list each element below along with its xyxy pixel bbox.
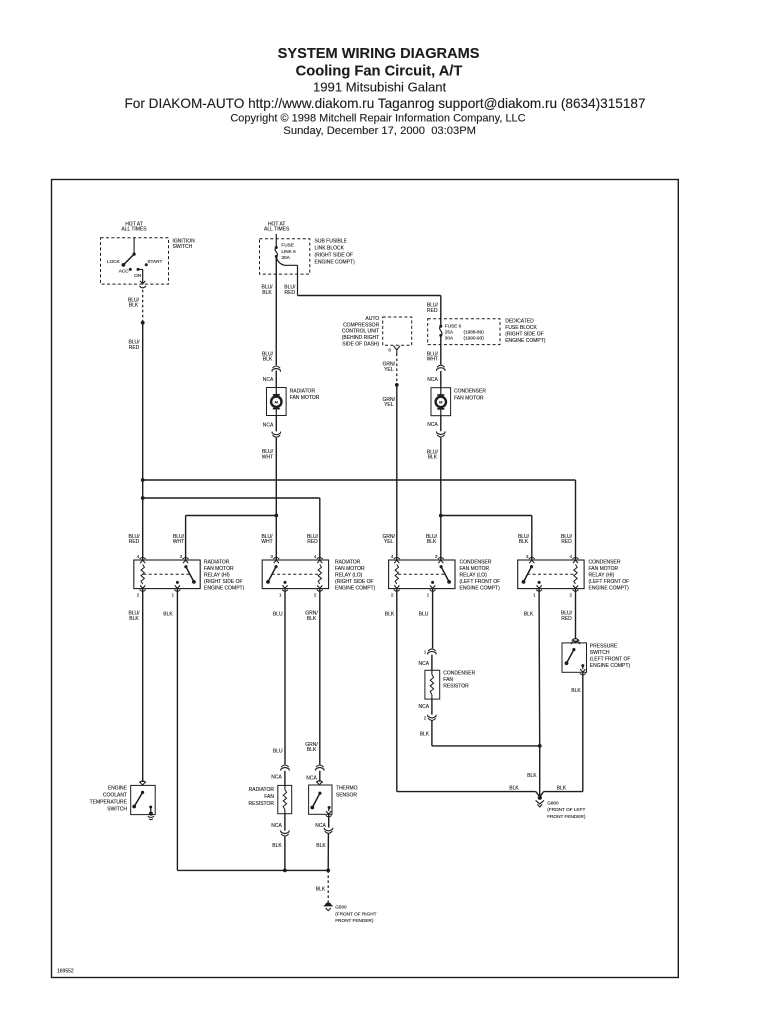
svg-text:RELAY (LO): RELAY (LO) bbox=[335, 573, 363, 579]
svg-text:AUTO: AUTO bbox=[365, 316, 379, 322]
svg-text:ENGINE COMPT): ENGINE COMPT) bbox=[204, 586, 245, 592]
svg-text:1: 1 bbox=[279, 592, 282, 597]
svg-text:FRONT FENDER): FRONT FENDER) bbox=[335, 918, 374, 923]
svg-text:4: 4 bbox=[137, 554, 140, 559]
svg-text:4: 4 bbox=[314, 554, 317, 559]
svg-text:BLK: BLK bbox=[519, 539, 529, 545]
svg-text:(RIGHT SIDE OF: (RIGHT SIDE OF bbox=[335, 579, 374, 585]
svg-text:6: 6 bbox=[388, 348, 391, 353]
svg-text:2: 2 bbox=[570, 592, 573, 597]
svg-text:BLK: BLK bbox=[129, 303, 139, 309]
svg-text:BLU: BLU bbox=[273, 749, 283, 755]
svg-text:BLK: BLK bbox=[420, 731, 430, 737]
svg-text:RELAY (HI): RELAY (HI) bbox=[589, 573, 615, 579]
svg-text:RELAY (HI): RELAY (HI) bbox=[204, 573, 230, 579]
svg-text:COMPRESSOR: COMPRESSOR bbox=[343, 322, 380, 328]
svg-text:WHT: WHT bbox=[262, 454, 273, 460]
svg-text:FUSE: FUSE bbox=[281, 243, 294, 248]
svg-text:1: 1 bbox=[424, 649, 427, 654]
svg-text:RADIATOR: RADIATOR bbox=[249, 787, 275, 793]
svg-text:FAN MOTOR: FAN MOTOR bbox=[460, 566, 490, 572]
svg-text:RADIATOR: RADIATOR bbox=[290, 388, 316, 394]
svg-text:ENGINE COMPT): ENGINE COMPT) bbox=[335, 586, 376, 592]
svg-text:WHT: WHT bbox=[173, 539, 184, 545]
svg-text:1: 1 bbox=[533, 592, 536, 597]
svg-text:3: 3 bbox=[180, 554, 183, 559]
svg-text:NCA: NCA bbox=[427, 377, 438, 383]
svg-text:For DIAKOM-AUTO http://www.dia: For DIAKOM-AUTO http://www.diakom.ru Tag… bbox=[124, 96, 645, 111]
svg-text:RADIATOR: RADIATOR bbox=[335, 560, 361, 566]
svg-text:RED: RED bbox=[285, 290, 296, 296]
svg-text:FUSE BLOCK: FUSE BLOCK bbox=[505, 325, 537, 331]
svg-text:NCA: NCA bbox=[427, 422, 438, 428]
svg-text:FUSE 6: FUSE 6 bbox=[445, 324, 462, 329]
svg-text:BLK: BLK bbox=[524, 612, 534, 618]
svg-text:3: 3 bbox=[435, 554, 438, 559]
svg-text:2: 2 bbox=[314, 592, 317, 597]
svg-text:Cooling Fan Circuit, A/T: Cooling Fan Circuit, A/T bbox=[296, 64, 463, 80]
svg-text:SWITCH: SWITCH bbox=[107, 807, 127, 813]
svg-text:BLK: BLK bbox=[509, 785, 519, 791]
svg-text:RED: RED bbox=[307, 539, 318, 545]
svg-text:THERMO: THERMO bbox=[336, 786, 358, 792]
svg-text:(FRONT OF LEFT: (FRONT OF LEFT bbox=[547, 807, 585, 812]
svg-text:SENSOR: SENSOR bbox=[336, 792, 358, 798]
svg-text:ENGINE COMPT): ENGINE COMPT) bbox=[460, 586, 501, 592]
svg-text:169552: 169552 bbox=[57, 969, 74, 975]
svg-text:LINK BLOCK: LINK BLOCK bbox=[315, 246, 345, 252]
svg-text:YEL: YEL bbox=[384, 367, 394, 373]
svg-text:4: 4 bbox=[570, 554, 573, 559]
svg-text:ENGINE: ENGINE bbox=[108, 786, 128, 792]
svg-text:(1990-93): (1990-93) bbox=[464, 336, 485, 341]
svg-text:SUB FUSIBLE: SUB FUSIBLE bbox=[315, 239, 348, 245]
svg-text:WHT: WHT bbox=[427, 357, 438, 363]
svg-text:3: 3 bbox=[270, 554, 273, 559]
svg-text:M: M bbox=[275, 399, 279, 404]
svg-text:YEL: YEL bbox=[384, 539, 394, 545]
svg-text:ALL TIMES: ALL TIMES bbox=[121, 227, 147, 233]
svg-text:M: M bbox=[439, 400, 443, 405]
svg-text:BLK: BLK bbox=[272, 843, 282, 849]
svg-text:RED: RED bbox=[129, 539, 140, 545]
svg-text:G500: G500 bbox=[335, 905, 347, 910]
svg-text:RED: RED bbox=[427, 308, 438, 314]
svg-text:SWITCH: SWITCH bbox=[590, 650, 610, 656]
svg-text:RED: RED bbox=[129, 345, 140, 351]
svg-text:BLK: BLK bbox=[262, 290, 272, 296]
svg-text:BLK: BLK bbox=[307, 616, 317, 622]
svg-text:BLK: BLK bbox=[263, 357, 273, 363]
svg-text:BLU: BLU bbox=[419, 612, 429, 618]
svg-text:DEDICATED: DEDICATED bbox=[505, 319, 534, 325]
svg-text:ON: ON bbox=[134, 273, 141, 278]
svg-text:ENGINE COMPT): ENGINE COMPT) bbox=[315, 259, 356, 265]
svg-text:BLK: BLK bbox=[571, 688, 581, 694]
svg-text:G800: G800 bbox=[547, 800, 559, 805]
svg-text:TEMPERATURE: TEMPERATURE bbox=[90, 800, 128, 806]
svg-text:BLK: BLK bbox=[316, 843, 326, 849]
svg-text:YEL: YEL bbox=[384, 402, 394, 408]
svg-text:FAN: FAN bbox=[443, 677, 453, 683]
svg-text:ENGINE COMPT): ENGINE COMPT) bbox=[589, 586, 630, 592]
svg-text:BLK: BLK bbox=[385, 612, 395, 618]
svg-text:ENGINE COMPT): ENGINE COMPT) bbox=[590, 663, 631, 669]
svg-text:NCA: NCA bbox=[306, 775, 317, 781]
svg-text:CONDENSER: CONDENSER bbox=[589, 560, 621, 566]
svg-text:BLK: BLK bbox=[163, 612, 173, 618]
svg-text:CONDENSER: CONDENSER bbox=[454, 389, 486, 395]
svg-text:2: 2 bbox=[424, 716, 427, 721]
svg-text:Sunday, December 17, 2000 03:: Sunday, December 17, 2000 03:03PM bbox=[283, 125, 476, 137]
svg-text:RED: RED bbox=[561, 539, 572, 545]
svg-text:CONDENSER: CONDENSER bbox=[443, 671, 475, 677]
svg-text:(RIGHT SIDE OF: (RIGHT SIDE OF bbox=[204, 579, 243, 585]
svg-text:LINK 6: LINK 6 bbox=[281, 249, 296, 254]
svg-text:(LEFT FRONT OF: (LEFT FRONT OF bbox=[590, 656, 631, 662]
svg-text:WHT: WHT bbox=[261, 539, 272, 545]
svg-text:CONDENSER: CONDENSER bbox=[460, 560, 492, 566]
svg-text:BLK: BLK bbox=[527, 773, 537, 779]
svg-text:NCA: NCA bbox=[271, 823, 282, 829]
svg-text:RESISTOR: RESISTOR bbox=[249, 801, 275, 807]
svg-text:FAN MOTOR: FAN MOTOR bbox=[454, 395, 484, 401]
svg-text:PRESSURE: PRESSURE bbox=[590, 643, 618, 649]
svg-text:RED: RED bbox=[561, 616, 572, 622]
svg-text:FAN MOTOR: FAN MOTOR bbox=[204, 566, 234, 572]
svg-text:SIDE OF DASH): SIDE OF DASH) bbox=[342, 341, 379, 347]
svg-text:ALL TIMES: ALL TIMES bbox=[264, 227, 290, 233]
svg-text:FAN MOTOR: FAN MOTOR bbox=[589, 566, 619, 572]
svg-text:COOLANT: COOLANT bbox=[103, 793, 127, 799]
svg-text:NCA: NCA bbox=[271, 774, 282, 780]
svg-text:25A: 25A bbox=[445, 330, 454, 335]
svg-text:FRONT FENDER): FRONT FENDER) bbox=[547, 814, 586, 819]
svg-text:1991 Mitsubishi Galant: 1991 Mitsubishi Galant bbox=[313, 80, 447, 95]
svg-text:(RIGHT SIDE OF: (RIGHT SIDE OF bbox=[505, 332, 544, 338]
svg-text:BLK: BLK bbox=[129, 616, 139, 622]
svg-text:FAN: FAN bbox=[264, 794, 274, 800]
svg-text:SYSTEM WIRING DIAGRAMS: SYSTEM WIRING DIAGRAMS bbox=[278, 46, 480, 62]
svg-text:NCA: NCA bbox=[419, 661, 430, 667]
svg-text:BLK: BLK bbox=[427, 539, 437, 545]
svg-text:(LEFT FRONT OF: (LEFT FRONT OF bbox=[460, 579, 501, 585]
svg-text:Copyright © 1998 Mitchell Repa: Copyright © 1998 Mitchell Repair Informa… bbox=[230, 113, 525, 125]
svg-text:NCA: NCA bbox=[419, 704, 430, 710]
svg-text:ACC: ACC bbox=[119, 268, 130, 273]
svg-text:RELAY (LO): RELAY (LO) bbox=[460, 573, 488, 579]
svg-text:1: 1 bbox=[171, 592, 174, 597]
svg-text:BLK: BLK bbox=[307, 747, 317, 753]
svg-text:(FRONT OF RIGHT: (FRONT OF RIGHT bbox=[335, 911, 376, 916]
svg-text:2: 2 bbox=[137, 592, 140, 597]
svg-text:30A: 30A bbox=[281, 255, 290, 260]
svg-text:NCA: NCA bbox=[263, 377, 274, 383]
svg-text:SWITCH: SWITCH bbox=[173, 244, 193, 250]
svg-text:4: 4 bbox=[391, 554, 394, 559]
svg-text:(RIGHT SIDE OF: (RIGHT SIDE OF bbox=[315, 252, 354, 258]
svg-text:1: 1 bbox=[427, 592, 430, 597]
svg-text:LOCK: LOCK bbox=[107, 259, 121, 264]
svg-text:CONTROL UNIT: CONTROL UNIT bbox=[342, 329, 379, 335]
svg-text:30A: 30A bbox=[445, 336, 454, 341]
svg-text:BLK: BLK bbox=[316, 887, 326, 893]
svg-text:(1988-89): (1988-89) bbox=[464, 330, 485, 335]
svg-text:(BEHIND RIGHT: (BEHIND RIGHT bbox=[342, 335, 380, 341]
svg-text:RESISTOR: RESISTOR bbox=[443, 684, 469, 690]
svg-text:BLK: BLK bbox=[428, 455, 438, 461]
svg-text:BLU: BLU bbox=[273, 612, 283, 618]
svg-text:FAN MOTOR: FAN MOTOR bbox=[335, 566, 365, 572]
svg-text:NCA: NCA bbox=[263, 423, 274, 429]
svg-text:3: 3 bbox=[526, 554, 529, 559]
svg-text:BLK: BLK bbox=[557, 785, 567, 791]
svg-text:ENGINE COMPT): ENGINE COMPT) bbox=[505, 338, 546, 344]
svg-text:2: 2 bbox=[391, 592, 394, 597]
svg-text:FAN MOTOR: FAN MOTOR bbox=[290, 395, 320, 401]
svg-text:RADIATOR: RADIATOR bbox=[204, 560, 230, 566]
svg-text:START: START bbox=[147, 259, 162, 264]
svg-text:(LEFT FRONT OF: (LEFT FRONT OF bbox=[589, 579, 630, 585]
